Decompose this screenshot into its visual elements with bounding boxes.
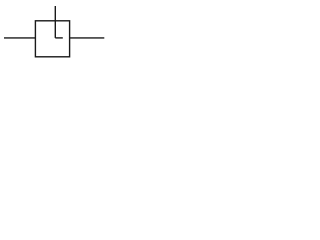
wire: left lead	[4, 37, 35, 39]
component box (rectangular body)	[35, 21, 69, 57]
wire: top control stem entering box	[54, 6, 56, 38]
wire: right lead	[70, 37, 105, 39]
wire: internal stub from stem	[55, 37, 63, 39]
